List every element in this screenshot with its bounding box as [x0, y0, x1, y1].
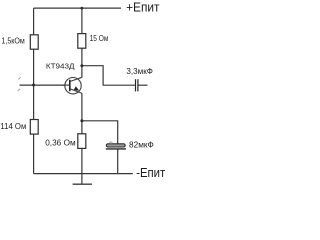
wire collector vertical [81, 8, 83, 77]
wire bottom rail -E [34, 173, 133, 175]
resistor R3 114 Ohm [30, 120, 38, 135]
ground stub [81, 174, 83, 185]
svg-text:15 Ом: 15 Ом [90, 33, 109, 43]
svg-text:-Епит: -Епит [136, 165, 165, 180]
transistor emitter arrow [74, 86, 80, 91]
capacitor C1 3.3uF plates [136, 79, 138, 91]
svg-text:1,5кОм: 1,5кОм [1, 36, 25, 46]
node: collector-C1 junction [80, 64, 83, 67]
resistor R2 15 Ohm [78, 34, 86, 49]
transistor emitter diagonal [70, 89, 82, 94]
svg-text:КТ943Д: КТ943Д [46, 62, 75, 71]
ground bar [73, 183, 92, 185]
resistor R1 1.5k [30, 35, 38, 49]
wire C1 output [139, 84, 148, 86]
wire top rail +E [34, 7, 121, 9]
transistor Q1 KT943D body [65, 78, 81, 94]
resistor R4 0.36 Ohm [78, 134, 86, 149]
svg-text:114 Ом: 114 Ом [0, 121, 26, 131]
wire emitter to C2 [82, 121, 118, 144]
svg-text:3,3мкФ: 3,3мкФ [126, 66, 153, 76]
wire left vertical (divider branch) [33, 8, 35, 174]
wire C2 to rail [117, 149, 119, 174]
capacitor C2 82uF top plate (curved, pill) [106, 144, 125, 147]
svg-text:0,36 Ом: 0,36 Ом [45, 138, 76, 148]
transistor base bar [69, 80, 71, 91]
transistor collector diagonal [70, 77, 82, 81]
node: emitter-C2 junction [80, 119, 83, 122]
wire base input [20, 84, 67, 86]
wire emitter vertical [81, 93, 83, 173]
capacitor C2 polarity plus [109, 141, 113, 144]
node: rail-collector junction [81, 7, 84, 10]
transistor base wire inside [62, 84, 69, 86]
svg-text:82мкФ: 82мкФ [129, 139, 154, 149]
svg-text:+Епит: +Епит [126, 0, 159, 14]
wire collector to C1 [82, 66, 135, 86]
input arrow ticks [18, 77, 21, 91]
capacitor C2 bottom plate [106, 148, 126, 150]
node: base-divider junction [32, 84, 35, 87]
